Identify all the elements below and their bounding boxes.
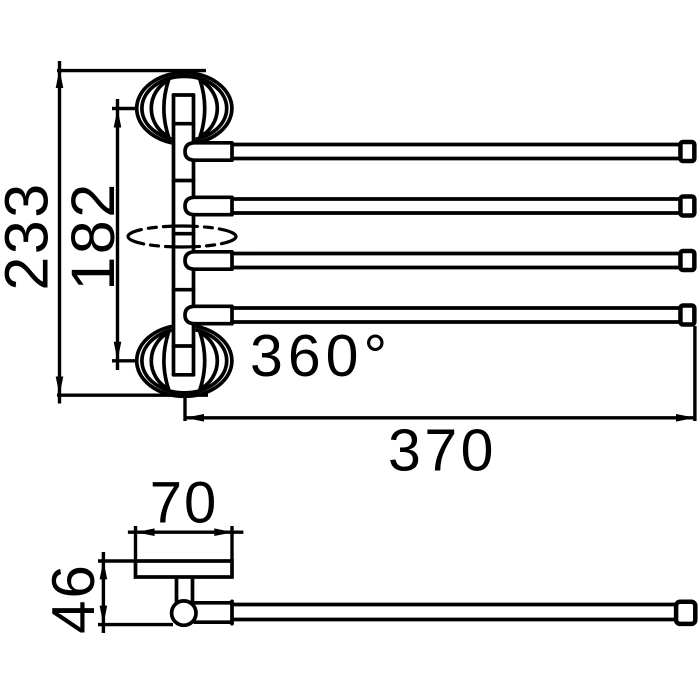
arm 1 hub	[185, 143, 232, 160]
arm 3 end cap	[680, 251, 694, 270]
46 dimension line	[102, 552, 105, 633]
182 arrow up	[114, 109, 122, 128]
post joint line mid	[174, 232, 194, 236]
arm 1 end cap	[680, 142, 694, 161]
pivot circle	[172, 601, 196, 625]
post right edge segments	[192, 95, 196, 143]
connector segment bottom	[195, 620, 232, 624]
vertical post fill	[172, 93, 196, 376]
post left edge	[172, 95, 176, 375]
182 extension top	[112, 107, 137, 110]
post joint line 2	[174, 179, 194, 183]
370 arrow right	[676, 414, 695, 422]
46 extension top	[98, 559, 136, 562]
svg-text:370: 370	[388, 418, 497, 484]
233 extension top	[57, 69, 206, 72]
233 arrow down	[56, 377, 64, 396]
70 extension left	[134, 526, 137, 560]
svg-text:233: 233	[0, 181, 61, 290]
182 extension bottom	[112, 359, 137, 362]
arm 1 bar	[232, 143, 679, 147]
46 extension bottom	[98, 623, 173, 626]
svg-text:70: 70	[150, 471, 219, 536]
side bar top	[232, 603, 676, 607]
top wall bracket outer ring	[137, 73, 232, 144]
370 extension right	[693, 326, 696, 421]
370 arrow left	[185, 414, 204, 422]
arm 2 hub	[185, 197, 232, 214]
stem left	[175, 578, 179, 603]
46 arrow up	[100, 560, 108, 579]
arm 2 end cap	[680, 196, 694, 215]
bottom bracket right crescent	[200, 333, 217, 389]
arm 4 hub	[185, 306, 232, 323]
wall plate (side view)	[136, 561, 233, 577]
connector segment top	[193, 601, 232, 605]
182 arrow down	[114, 342, 122, 361]
arm 3 hub	[185, 252, 232, 269]
46 arrow down	[100, 606, 108, 625]
370 dimension line	[185, 416, 695, 419]
rotation ellipse (dash-dot)	[128, 226, 236, 247]
svg-text:46: 46	[40, 563, 107, 634]
70 arrow right	[214, 528, 233, 536]
arm 4 bar	[232, 306, 679, 310]
post top cap	[174, 93, 194, 97]
bottom wall bracket outer ring	[137, 325, 232, 396]
233 dimension line	[58, 61, 61, 404]
top bracket left crescent	[151, 80, 168, 136]
top wall bracket inner ring	[142, 76, 227, 140]
svg-text:360°: 360°	[250, 323, 392, 389]
post joint line 1	[174, 122, 194, 126]
arm 2 bar	[232, 197, 679, 201]
top bracket right crescent	[200, 80, 217, 136]
stem right	[191, 578, 195, 603]
370 extension left	[183, 396, 186, 421]
70 arrow left	[136, 528, 155, 536]
side end cap	[676, 602, 695, 624]
70 extension right	[230, 526, 233, 560]
svg-text:182: 182	[59, 181, 127, 290]
233 arrow up	[56, 69, 64, 88]
arm 3 bar	[232, 252, 679, 256]
bottom bracket left crescent	[151, 333, 168, 389]
182 dimension line	[116, 99, 119, 370]
connector joint	[230, 601, 234, 623]
70 dimension line	[128, 531, 243, 534]
arm 4 end cap	[680, 305, 694, 324]
post joint line 4	[174, 344, 194, 348]
233 extension bottom	[57, 394, 208, 397]
bottom wall bracket inner ring	[142, 329, 227, 393]
post joint line 3	[174, 288, 194, 292]
side bar bottom	[232, 618, 676, 622]
post bottom cap	[174, 373, 194, 377]
